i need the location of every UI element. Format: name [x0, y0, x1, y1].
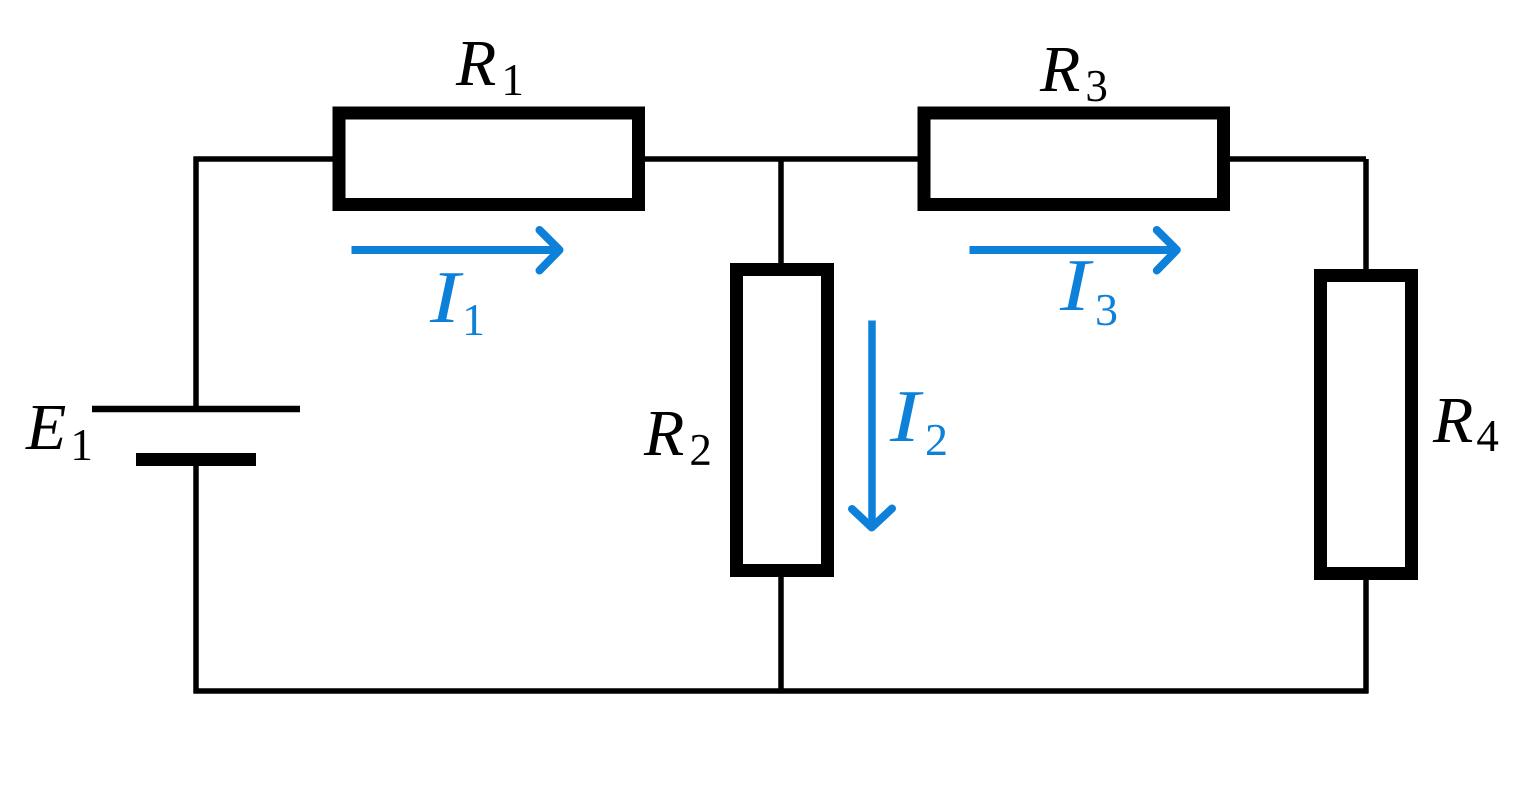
current arrow I1 — [352, 230, 560, 271]
resistor R1 body — [339, 113, 639, 205]
wire left vertical lower — [193, 460, 199, 694]
current arrow I3 — [970, 230, 1177, 271]
wire top horizontal — [194, 156, 1367, 162]
resistor R2 body — [737, 270, 828, 571]
wire left vertical upper — [193, 157, 199, 410]
battery E1 positive plate — [92, 406, 300, 413]
battery E1 negative plate — [136, 453, 256, 466]
current arrow I2 — [852, 321, 892, 528]
wire right vertical — [1363, 159, 1369, 693]
wire bottom horizontal — [194, 688, 1369, 694]
wire middle vertical — [778, 159, 784, 693]
resistor R4 body — [1321, 276, 1412, 574]
resistor R3 body — [924, 113, 1224, 205]
